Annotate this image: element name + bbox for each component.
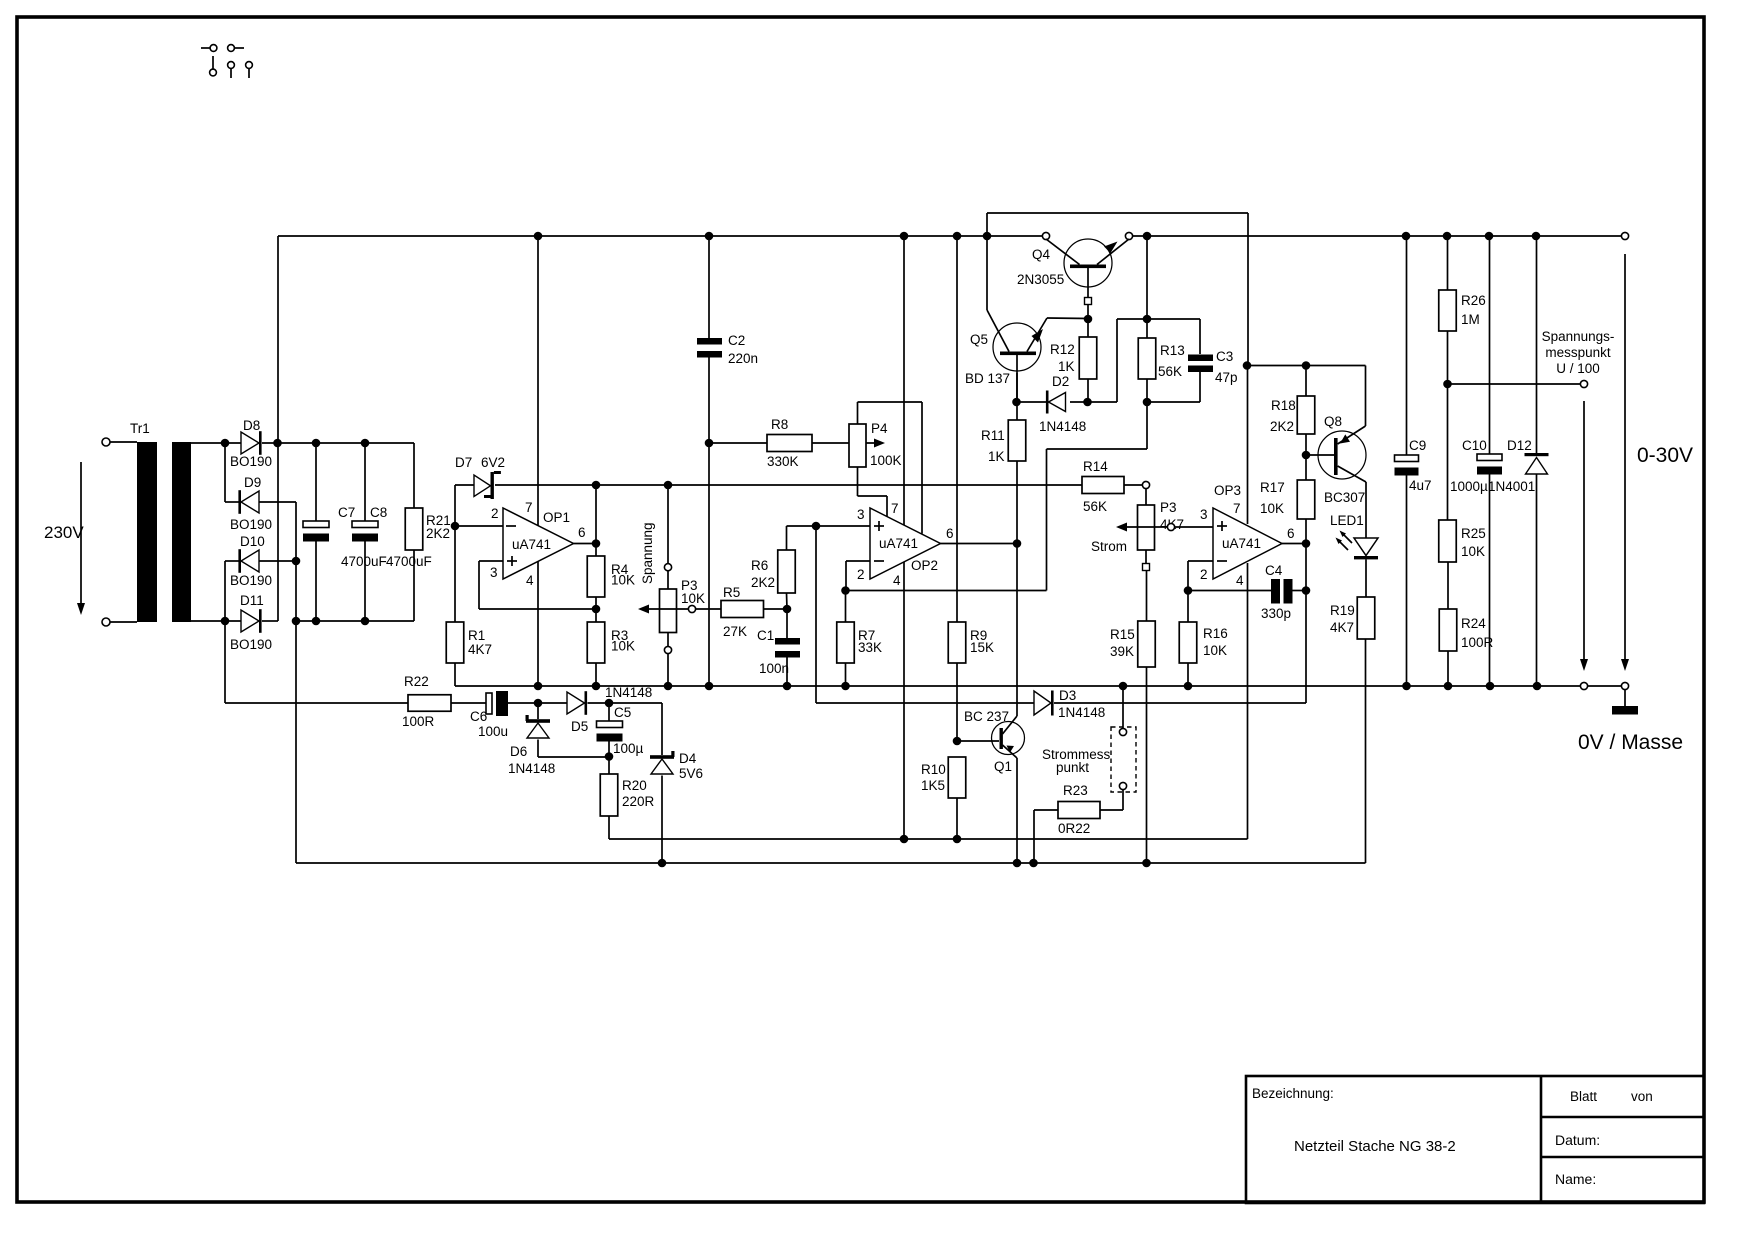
svg-text:LED1: LED1 — [1330, 513, 1364, 528]
svg-text:uA741: uA741 — [1222, 536, 1261, 551]
svg-text:C8: C8 — [370, 505, 387, 520]
svg-text:R18: R18 — [1271, 398, 1296, 413]
pin marker R15 top — [1143, 564, 1150, 571]
node rail C2 — [705, 232, 714, 241]
resistor R4 — [595, 544, 597, 557]
op-amp OP1 — [503, 508, 574, 579]
diode D10 — [241, 550, 259, 572]
node rail OP1-V+ — [534, 232, 543, 241]
wire AC1 top — [191, 442, 241, 444]
svg-text:Spannung: Spannung — [640, 522, 655, 584]
svg-text:220R: 220R — [622, 794, 655, 809]
transformer Tr1 primary bar — [137, 442, 157, 622]
node OP2 pin3 — [812, 522, 821, 531]
svg-text:2: 2 — [491, 506, 499, 521]
op-amp OP2 — [870, 508, 941, 579]
svg-text:6: 6 — [946, 526, 954, 541]
svg-text:10K: 10K — [1461, 544, 1485, 559]
svg-text:Tr1: Tr1 — [130, 421, 150, 436]
svg-text:C10: C10 — [1462, 438, 1487, 453]
node raw R15 — [1142, 859, 1151, 868]
node rail C10b — [1486, 682, 1495, 691]
resistor R20 — [608, 757, 610, 775]
wire R22 to C6 — [451, 702, 486, 704]
svg-text:27K: 27K — [723, 624, 747, 639]
node raw R23 — [1029, 859, 1038, 868]
svg-text:punkt: punkt — [1056, 760, 1089, 775]
transformer Tr1 secondary bar — [172, 442, 191, 622]
wire collector loop — [987, 212, 1248, 214]
svg-text:Q4: Q4 — [1032, 247, 1051, 262]
node -raw bottom — [292, 617, 301, 626]
connector pin bottom-3 — [246, 62, 253, 69]
svg-text:1K5: 1K5 — [921, 778, 945, 793]
svg-text:3: 3 — [857, 507, 865, 522]
svg-text:1N4148: 1N4148 — [605, 685, 652, 700]
diode D12 — [1536, 236, 1538, 453]
svg-text:1K: 1K — [1058, 359, 1075, 374]
svg-text:BO190: BO190 — [230, 454, 272, 469]
wire Q8 net top — [1248, 365, 1366, 367]
node C4 right — [1302, 586, 1311, 595]
terminal Q4 emitter — [1125, 232, 1132, 239]
node Q4 base R12 — [1084, 315, 1093, 324]
svg-text:Q8: Q8 — [1324, 414, 1342, 429]
svg-text:D8: D8 — [243, 418, 260, 433]
svg-text:5V6: 5V6 — [679, 766, 703, 781]
wire top rail right — [1133, 235, 1621, 237]
svg-text:2K2: 2K2 — [426, 526, 450, 541]
resistor R22 — [408, 695, 451, 712]
wire OP2 pin4 — [903, 562, 905, 840]
svg-text:100µ: 100µ — [613, 741, 644, 756]
capacitor C1 — [786, 609, 788, 638]
capacitor C8 — [364, 443, 366, 521]
wire R22 left — [225, 702, 408, 704]
node OP2 pin2 R7 — [841, 586, 850, 595]
node R5 R6 C1 — [783, 605, 792, 614]
svg-text:OP1: OP1 — [543, 510, 570, 525]
svg-text:OP2: OP2 — [911, 558, 938, 573]
wire OP3 output — [1282, 543, 1306, 545]
svg-text:230V: 230V — [44, 523, 84, 542]
wire C4 to output — [1305, 544, 1307, 591]
wire C3 bottom link — [1199, 372, 1201, 402]
wire OP2 pin7 — [903, 236, 905, 526]
svg-text:1M: 1M — [1461, 312, 1480, 327]
resistor R8 — [767, 435, 812, 452]
wire D10 left — [225, 560, 241, 562]
node rail R24b — [1444, 682, 1453, 691]
svg-text:Blatt: Blatt — [1570, 1089, 1597, 1104]
svg-text:R6: R6 — [751, 558, 768, 573]
resistor R13 — [1146, 236, 1148, 338]
svg-text:4: 4 — [526, 573, 534, 588]
svg-text:U / 100: U / 100 — [1556, 361, 1600, 376]
led LED1 — [1365, 482, 1367, 538]
potentiometer P3 10K body — [660, 589, 677, 633]
resistor R3 — [595, 609, 597, 622]
wire 0V rail — [455, 685, 1581, 687]
transistor Q4 — [1064, 239, 1112, 287]
svg-text:6: 6 — [578, 525, 586, 540]
resistor R12 — [1087, 319, 1089, 337]
svg-text:1N4148: 1N4148 — [1058, 705, 1105, 720]
wire compensation jog — [1146, 402, 1148, 449]
svg-text:1K: 1K — [988, 449, 1005, 464]
wire P4 bottom jog — [857, 467, 859, 496]
svg-text:Strom: Strom — [1091, 539, 1127, 554]
node rail shunt — [1119, 682, 1128, 691]
svg-text:47p: 47p — [1215, 370, 1238, 385]
svg-text:56K: 56K — [1083, 499, 1107, 514]
connector pin bottom-1 — [212, 56, 214, 69]
wire OP1 pin3 feedback — [479, 560, 503, 562]
node C8 bottom — [361, 617, 370, 626]
svg-text:1000µ: 1000µ — [1450, 479, 1488, 494]
ground symbol — [1624, 690, 1626, 706]
wire Q1 collector — [1016, 544, 1018, 717]
svg-text:15K: 15K — [970, 640, 994, 655]
svg-text:2: 2 — [857, 567, 865, 582]
terminal output plus — [1621, 232, 1628, 239]
svg-text:uA741: uA741 — [512, 537, 551, 552]
wire top rail left — [278, 235, 1046, 237]
node rail OP1-V- — [534, 682, 543, 691]
node C5 bottom — [605, 752, 614, 761]
terminal P3 wiper — [688, 605, 695, 612]
wire D7 left drop — [454, 485, 456, 526]
wire raw minus line — [296, 862, 1366, 864]
svg-text:330K: 330K — [767, 454, 799, 469]
svg-text:2K2: 2K2 — [1270, 419, 1294, 434]
wire Q1 base — [957, 740, 999, 742]
node C7 top — [312, 439, 321, 448]
wire D2 link — [1016, 401, 1046, 403]
svg-text:100R: 100R — [402, 714, 435, 729]
node rail D12b — [1533, 682, 1542, 691]
capacitor C10 — [1489, 236, 1491, 454]
wire OP1 pin2 — [455, 525, 503, 527]
node rail C2b — [705, 682, 714, 691]
svg-text:D3: D3 — [1059, 688, 1076, 703]
svg-text:C4: C4 — [1265, 563, 1283, 578]
capacitor C2 — [708, 236, 710, 338]
resistor R24 — [1439, 609, 1457, 651]
svg-text:D6: D6 — [510, 744, 527, 759]
node AC2 — [221, 617, 230, 626]
resistor R17 — [1305, 455, 1307, 480]
svg-text:3: 3 — [490, 565, 498, 580]
wire Q4 base — [1087, 305, 1089, 320]
svg-text:10K: 10K — [1203, 643, 1227, 658]
resistor R25 — [1447, 384, 1449, 520]
svg-text:von: von — [1631, 1089, 1653, 1104]
wire P3strom bottom — [1145, 550, 1147, 564]
node -raw D10 — [292, 557, 301, 566]
svg-text:D9: D9 — [244, 475, 261, 490]
wire D9 anode — [259, 501, 296, 503]
node C3 net — [1243, 361, 1252, 370]
svg-text:C7: C7 — [338, 505, 355, 520]
svg-text:1N4001: 1N4001 — [1488, 479, 1535, 494]
wire D7 line — [455, 484, 474, 486]
svg-text:10K: 10K — [611, 639, 635, 654]
svg-text:D5: D5 — [571, 719, 588, 734]
svg-text:BC 237: BC 237 — [964, 709, 1009, 724]
wire Q5 emitter to Q4 base — [1047, 317, 1088, 320]
svg-text:R24: R24 — [1461, 616, 1486, 631]
node rail R26 — [1443, 232, 1452, 241]
node rail C10 — [1485, 232, 1494, 241]
node raw D4 — [658, 859, 667, 868]
resistor R11 — [1016, 402, 1018, 420]
svg-text:330p: 330p — [1261, 606, 1291, 621]
svg-text:BD 137: BD 137 — [965, 371, 1010, 386]
svg-text:Q5: Q5 — [970, 332, 988, 347]
svg-text:P3: P3 — [1160, 500, 1177, 515]
svg-text:BO190: BO190 — [230, 573, 272, 588]
svg-text:C3: C3 — [1216, 349, 1233, 364]
node rail R16b — [1184, 682, 1193, 691]
svg-text:R13: R13 — [1160, 343, 1185, 358]
zener D6 — [537, 703, 539, 719]
svg-text:6: 6 — [1287, 526, 1295, 541]
svg-text:56K: 56K — [1158, 364, 1182, 379]
svg-text:2N3055: 2N3055 — [1017, 272, 1064, 287]
wire OP2 pin2 — [846, 560, 870, 562]
node R8 C2 — [705, 439, 714, 448]
title block row line 2 — [1541, 1156, 1704, 1159]
node D6 top — [534, 699, 543, 708]
wire P3 bottom stub — [667, 633, 669, 647]
svg-text:R22: R22 — [404, 674, 429, 689]
resistor R7 — [845, 591, 847, 623]
diode D8 — [241, 432, 259, 454]
capacitor C9 — [1406, 236, 1408, 455]
node AC1-D8 — [221, 439, 230, 448]
svg-text:C1: C1 — [757, 628, 774, 643]
diode D2 — [1049, 393, 1066, 412]
svg-text:D4: D4 — [679, 751, 697, 766]
node rail OP2-V+ — [900, 232, 909, 241]
node rail C9 — [1402, 232, 1411, 241]
node rail R7b — [841, 682, 850, 691]
node OP3 pin2 — [1184, 586, 1193, 595]
connector pin top-right — [228, 45, 235, 52]
svg-text:messpunkt: messpunkt — [1545, 345, 1611, 360]
node rail R3 — [592, 682, 601, 691]
node R13 top — [1143, 315, 1152, 324]
svg-text:R14: R14 — [1083, 459, 1108, 474]
svg-text:C5: C5 — [614, 705, 631, 720]
resistor R16 — [1187, 591, 1189, 623]
wire R8 left — [709, 442, 767, 444]
svg-text:4K7: 4K7 — [468, 642, 492, 657]
svg-text:4700uF: 4700uF — [341, 554, 387, 569]
svg-text:D12: D12 — [1507, 438, 1532, 453]
svg-text:Netzteil Stache NG 38-2: Netzteil Stache NG 38-2 — [1294, 1138, 1456, 1155]
resistor R18 — [1305, 366, 1307, 397]
terminal P3strom top — [1142, 481, 1149, 488]
svg-text:R1: R1 — [468, 628, 485, 643]
wire OP1 output — [574, 543, 597, 545]
svg-text:OP3: OP3 — [1214, 483, 1241, 498]
wire C2 down — [708, 443, 710, 686]
wire U100 drop — [1583, 401, 1585, 659]
diode D3 — [1034, 691, 1051, 715]
zener D7 — [474, 475, 491, 497]
svg-text:Spannungs-: Spannungs- — [1542, 329, 1615, 344]
svg-text:10K: 10K — [1260, 501, 1284, 516]
wire Q1 emitter — [1016, 758, 1018, 863]
wire loop right drop — [1247, 213, 1249, 366]
potentiometer P4 body — [849, 424, 866, 467]
node rail R13 — [1143, 232, 1152, 241]
resistor R19 — [1365, 559, 1367, 597]
wire U100 line — [1448, 383, 1581, 385]
arrow 230V down — [80, 462, 82, 603]
node OP3 output — [1302, 539, 1311, 548]
svg-text:D11: D11 — [240, 593, 264, 608]
svg-text:100R: 100R — [1461, 635, 1494, 650]
resistor R1 — [454, 526, 456, 622]
wire OP1 pin7 — [537, 236, 539, 526]
transistor Q8 — [1318, 431, 1366, 479]
title block divider — [1540, 1076, 1543, 1203]
node aux OP2-V- — [900, 835, 909, 844]
node OP1 pin2 — [451, 522, 460, 531]
svg-text:100u: 100u — [478, 724, 508, 739]
wire R5 right — [764, 608, 788, 610]
measuring box Strommesspunkt — [1111, 727, 1136, 792]
terminal 230V top — [102, 438, 110, 446]
node +raw top — [273, 439, 282, 448]
wiper arrow P4 — [812, 442, 874, 444]
svg-text:D10: D10 — [240, 534, 265, 549]
title block outline — [1246, 1076, 1704, 1203]
svg-text:220n: 220n — [728, 351, 758, 366]
wire -raw bottom segment — [296, 620, 414, 622]
terminal U100 — [1580, 380, 1587, 387]
node D7 P3 — [664, 481, 673, 490]
transistor Q1 — [992, 722, 1025, 755]
svg-text:100K: 100K — [870, 453, 902, 468]
svg-text:0R22: 0R22 — [1058, 821, 1090, 836]
node aux R10 — [953, 835, 962, 844]
terminal shunt top — [1119, 728, 1126, 735]
svg-text:1N4148: 1N4148 — [1039, 419, 1086, 434]
svg-text:D2: D2 — [1052, 374, 1069, 389]
terminal Q4 collector — [1042, 232, 1049, 239]
svg-text:C2: C2 — [728, 333, 745, 348]
capacitor C7 — [315, 443, 317, 521]
svg-text:Name:: Name: — [1555, 1171, 1596, 1187]
svg-text:P4: P4 — [871, 421, 888, 436]
wire R23 left — [1034, 809, 1058, 811]
svg-text:10K: 10K — [611, 573, 635, 588]
node rail R9 — [953, 232, 962, 241]
terminal 0V Masse — [1621, 682, 1628, 689]
connector pin top-left — [201, 47, 210, 49]
svg-text:3: 3 — [1200, 507, 1208, 522]
svg-text:R17: R17 — [1260, 480, 1285, 495]
svg-text:0-30V: 0-30V — [1637, 444, 1693, 467]
svg-text:2K2: 2K2 — [751, 575, 775, 590]
svg-text:Q1: Q1 — [994, 759, 1012, 774]
wire Q8 emitter riser — [1365, 366, 1367, 427]
svg-text:R10: R10 — [921, 762, 946, 777]
svg-text:R23: R23 — [1063, 783, 1088, 798]
wire wiper to OP3 — [1175, 526, 1213, 528]
node OP2 output — [1013, 539, 1022, 548]
svg-text:R19: R19 — [1330, 603, 1355, 618]
capacitor C3 — [1188, 355, 1213, 362]
node rail Q5 — [983, 232, 992, 241]
svg-text:Datum:: Datum: — [1555, 1132, 1600, 1148]
wire D5 to C5 — [588, 702, 663, 704]
wire 0V rail end — [1588, 685, 1622, 687]
node R18 top — [1302, 361, 1311, 370]
svg-text:39K: 39K — [1110, 644, 1134, 659]
svg-text:R12: R12 — [1050, 342, 1075, 357]
diode D5 — [567, 692, 585, 714]
terminal 0V sense — [1580, 682, 1587, 689]
svg-text:R5: R5 — [723, 585, 740, 600]
svg-text:10K: 10K — [681, 591, 705, 606]
terminal P3 bottom — [664, 646, 671, 653]
wire aux minus line — [904, 838, 1248, 840]
wire output drop — [1624, 254, 1626, 659]
svg-text:100n: 100n — [759, 661, 789, 676]
wire P3 top — [667, 485, 669, 564]
wire AC2 bottom — [191, 620, 241, 622]
svg-text:C6: C6 — [470, 709, 487, 724]
node rail D12 — [1532, 232, 1541, 241]
transistor Q5 — [993, 323, 1041, 371]
node C8 top — [361, 439, 370, 448]
svg-text:Bezeichnung:: Bezeichnung: — [1252, 1086, 1334, 1101]
potentiometer P3 4K7 body — [1138, 505, 1155, 550]
connector pin bottom-2 — [228, 62, 235, 69]
resistor R5 — [721, 601, 764, 618]
wire P3 bottom — [667, 654, 669, 686]
wire D3 cathode — [1054, 702, 1306, 704]
node C5 top — [605, 699, 614, 708]
wire OP3 pin7 — [1247, 366, 1249, 525]
node rail C1b — [783, 682, 792, 691]
svg-text:7: 7 — [1233, 501, 1241, 516]
resistor R14 — [1082, 477, 1124, 494]
terminal 230V bottom — [102, 618, 110, 626]
node R26 bottom — [1443, 380, 1452, 389]
terminal shunt bottom — [1119, 782, 1126, 789]
capacitor C6 — [486, 693, 492, 714]
wire P4 top loop — [857, 402, 859, 424]
node Q1 base — [953, 737, 962, 746]
node Q5 base D2 — [1012, 398, 1021, 407]
resistor R26 — [1447, 236, 1449, 290]
op-amp OP3 — [1213, 508, 1282, 579]
resistor R6 — [786, 526, 788, 550]
terminal P3strom wiper — [1167, 523, 1174, 530]
wire shunt to R23 — [1122, 790, 1124, 810]
svg-text:R11: R11 — [981, 428, 1005, 443]
svg-text:R8: R8 — [771, 417, 788, 432]
wire AC2 to R22 — [224, 621, 226, 703]
svg-text:4700uF: 4700uF — [386, 554, 432, 569]
svg-text:C9: C9 — [1409, 438, 1426, 453]
